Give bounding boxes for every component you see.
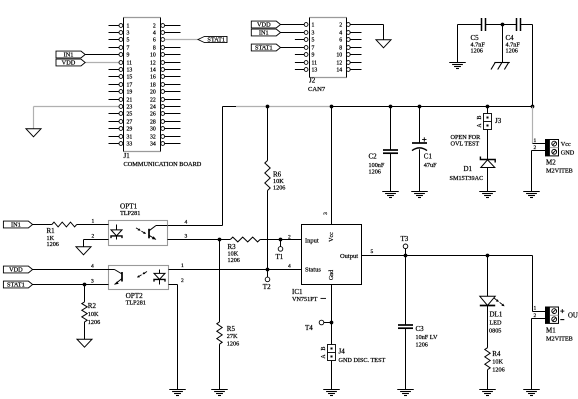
svg-text:10: 10: [150, 53, 156, 59]
svg-text:2: 2: [92, 233, 95, 239]
svg-text:2: 2: [533, 145, 536, 151]
svg-text:C3: C3: [416, 325, 425, 333]
svg-text:29: 29: [127, 127, 133, 133]
svg-text:3: 3: [312, 31, 315, 37]
svg-text:TLP281: TLP281: [126, 300, 146, 307]
svg-text:D1: D1: [464, 165, 473, 173]
svg-text:17: 17: [127, 83, 133, 89]
svg-text:4: 4: [91, 263, 94, 269]
svg-text:25: 25: [127, 112, 133, 118]
svg-text:R4: R4: [492, 350, 501, 358]
svg-text:1206: 1206: [227, 340, 239, 347]
svg-text:LED: LED: [490, 320, 503, 327]
svg-text:24: 24: [150, 105, 156, 111]
svg-text:R2: R2: [88, 302, 97, 310]
svg-text:M2: M2: [546, 159, 556, 167]
svg-text:20: 20: [150, 90, 156, 96]
svg-text:7: 7: [312, 46, 315, 52]
svg-text:27K: 27K: [227, 333, 238, 340]
svg-text:VDD: VDD: [9, 267, 23, 274]
svg-text:M2VITEB: M2VITEB: [546, 336, 573, 343]
svg-text:9: 9: [312, 53, 315, 59]
svg-text:1: 1: [127, 24, 130, 30]
svg-text:T2: T2: [263, 283, 271, 291]
svg-text:VN751PT: VN751PT: [292, 296, 318, 303]
svg-text:Output: Output: [340, 253, 358, 260]
svg-text:STAT1: STAT1: [255, 45, 273, 52]
svg-text:8: 8: [153, 46, 156, 52]
svg-text:J3: J3: [495, 117, 502, 125]
svg-text:31: 31: [127, 135, 133, 141]
svg-text:6: 6: [339, 38, 342, 44]
svg-text:1206: 1206: [506, 48, 518, 55]
svg-text:47uF: 47uF: [424, 162, 437, 169]
svg-text:13: 13: [127, 68, 133, 74]
svg-text:28: 28: [150, 120, 156, 126]
svg-text:16: 16: [150, 75, 156, 81]
svg-text:1206: 1206: [369, 169, 381, 176]
svg-text:3: 3: [91, 278, 94, 284]
svg-text:32: 32: [150, 135, 156, 141]
svg-text:VDD: VDD: [62, 60, 76, 67]
svg-text:IN1: IN1: [11, 222, 21, 229]
svg-text:B: B: [477, 115, 483, 119]
svg-text:1206: 1206: [471, 48, 483, 55]
svg-text:18: 18: [150, 83, 156, 89]
svg-text:23: 23: [127, 105, 133, 111]
svg-text:C1: C1: [424, 153, 433, 161]
svg-text:STAT1: STAT1: [207, 37, 225, 44]
svg-text:11: 11: [127, 61, 133, 67]
svg-text:IN1: IN1: [259, 30, 269, 37]
svg-text:14: 14: [150, 68, 156, 74]
svg-text:1: 1: [181, 263, 184, 269]
svg-text:Gnd: Gnd: [329, 270, 335, 280]
svg-text:4: 4: [185, 219, 188, 225]
svg-text:Input: Input: [305, 237, 319, 244]
svg-text:J2: J2: [309, 77, 316, 85]
svg-text:2: 2: [153, 24, 156, 30]
svg-text:M1: M1: [546, 326, 556, 334]
svg-text:J1: J1: [124, 152, 131, 160]
svg-text:9: 9: [127, 53, 130, 59]
svg-text:1206: 1206: [88, 319, 100, 326]
svg-text:Vcc: Vcc: [561, 141, 571, 148]
svg-text:4: 4: [339, 31, 342, 37]
svg-text:GND: GND: [561, 149, 575, 156]
svg-text:TLP281: TLP281: [120, 210, 140, 217]
svg-text:1206: 1206: [47, 241, 59, 248]
svg-text:10K: 10K: [492, 359, 503, 366]
svg-text:VDD: VDD: [257, 22, 271, 29]
svg-text:COMMUNICATION BOARD: COMMUNICATION BOARD: [124, 161, 202, 168]
svg-text:T4: T4: [305, 324, 313, 332]
svg-text:4: 4: [153, 31, 156, 37]
svg-text:6: 6: [153, 38, 156, 44]
svg-text:11: 11: [312, 61, 318, 67]
svg-text:OUT: OUT: [568, 312, 578, 319]
svg-text:5: 5: [127, 38, 130, 44]
svg-text:2: 2: [181, 278, 184, 284]
svg-text:SM15T39AC: SM15T39AC: [450, 175, 484, 182]
svg-text:10nF LV: 10nF LV: [416, 334, 438, 341]
svg-text:2: 2: [288, 234, 291, 240]
svg-text:1206: 1206: [492, 366, 504, 373]
svg-text:GND DISC. TEST: GND DISC. TEST: [339, 357, 386, 364]
svg-text:Status: Status: [305, 267, 321, 274]
svg-text:C2: C2: [369, 153, 378, 161]
svg-text:2: 2: [533, 313, 536, 319]
svg-text:10: 10: [336, 53, 342, 59]
svg-text:R5: R5: [227, 325, 236, 333]
svg-text:3: 3: [185, 233, 188, 239]
svg-text:8: 8: [339, 46, 342, 52]
svg-text:1206: 1206: [273, 184, 285, 191]
svg-text:3: 3: [323, 212, 329, 215]
svg-text:30: 30: [150, 127, 156, 133]
svg-text:1: 1: [312, 23, 315, 29]
svg-text:5: 5: [371, 249, 374, 255]
svg-text:CAN7: CAN7: [308, 86, 326, 93]
svg-text:1206: 1206: [228, 257, 240, 264]
svg-text:Vcc: Vcc: [329, 232, 335, 242]
svg-text:12: 12: [150, 61, 156, 67]
svg-text:1: 1: [533, 306, 536, 312]
svg-text:33: 33: [127, 142, 133, 148]
svg-text:B: B: [321, 346, 327, 350]
svg-text:13: 13: [312, 68, 318, 74]
svg-text:DL1: DL1: [490, 310, 503, 318]
svg-text:IN1: IN1: [64, 52, 74, 59]
svg-text:M2VITEB: M2VITEB: [546, 168, 573, 175]
svg-text:21: 21: [127, 98, 133, 104]
svg-text:STAT1: STAT1: [7, 282, 25, 289]
svg-text:10K: 10K: [88, 311, 99, 318]
svg-text:3: 3: [127, 31, 130, 37]
svg-text:19: 19: [127, 90, 133, 96]
svg-text:7: 7: [127, 46, 130, 52]
svg-text:OVL TEST: OVL TEST: [451, 141, 480, 148]
svg-text:12: 12: [336, 61, 342, 67]
svg-text:15: 15: [127, 75, 133, 81]
svg-text:22: 22: [150, 98, 156, 104]
svg-text:1: 1: [92, 218, 95, 224]
svg-text:2: 2: [339, 23, 342, 29]
svg-text:1: 1: [533, 138, 536, 144]
svg-text:34: 34: [150, 142, 156, 148]
svg-text:T3: T3: [401, 235, 409, 243]
svg-text:5: 5: [312, 38, 315, 44]
svg-text:27: 27: [127, 120, 133, 126]
svg-text:4: 4: [288, 264, 291, 270]
svg-text:26: 26: [150, 112, 156, 118]
svg-text:0805: 0805: [489, 328, 501, 335]
svg-text:J4: J4: [339, 348, 346, 356]
svg-text:1206: 1206: [416, 341, 428, 348]
svg-text:14: 14: [336, 68, 342, 74]
svg-text:T1: T1: [276, 253, 284, 261]
